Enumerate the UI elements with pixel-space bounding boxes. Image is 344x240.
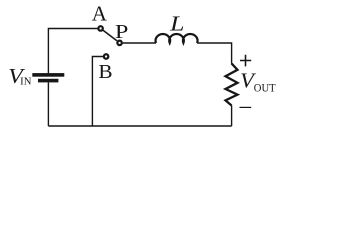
wire: inductor to top-right corner and down to resistor [197,43,232,64]
switch terminal A (open circle) [98,26,103,31]
label V_IN [8,64,32,88]
resistor (load) zigzag [226,64,238,106]
wire: resistor bottom to bottom rail [231,106,233,127]
label V_OUT [240,68,275,94]
switch pole arm from A toward P [103,30,117,40]
polarity minus sign [240,106,252,108]
svg-text:B: B [98,61,112,83]
polarity plus sign [240,55,251,67]
battery V_IN: short negative plate [38,79,58,83]
wire: pole P to inductor [123,42,156,44]
svg-text:P: P [115,21,128,43]
battery V_IN: long positive plate [32,73,64,77]
inductor L (three humps) [156,34,198,43]
svg-text:OUT: OUT [254,82,276,94]
svg-text:L: L [169,11,185,35]
wire: bottom rail [48,125,231,127]
switch terminal B (open circle) [104,54,109,59]
svg-text:A: A [92,1,108,25]
switch pole P (open circle) [117,41,122,46]
wire: branch from switch terminal B left and down to bottom rail [92,57,103,127]
svg-text:IN: IN [20,77,32,88]
wire: from battery + terminal up and right to switch terminal A [48,29,97,74]
wire: battery - terminal down to bottom rail [47,82,49,126]
